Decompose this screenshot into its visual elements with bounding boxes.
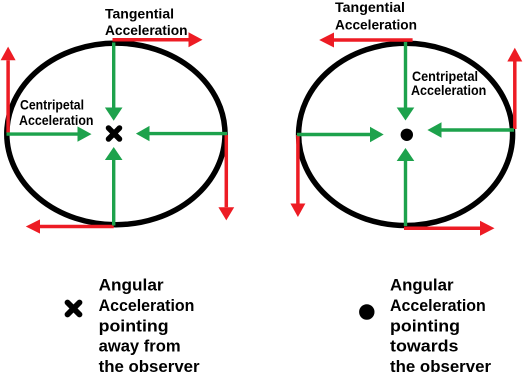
right tangential arrow bottom (red, right): [404, 221, 495, 236]
svg-text:Acceleration: Acceleration: [390, 296, 486, 315]
svg-text:Acceleration: Acceleration: [411, 83, 486, 98]
left centripetal arrow from top (green, down): [105, 43, 123, 121]
svg-text:Angular: Angular: [390, 276, 454, 295]
legend right dot symbol: [359, 304, 374, 319]
svg-text:Acceleration: Acceleration: [19, 113, 94, 128]
legend left text: angular acceleration away from observer: [99, 276, 200, 377]
right tangential arrow left (red, down): [290, 135, 305, 217]
label: left tangential acceleration: [105, 6, 188, 39]
legend left X symbol: [68, 303, 80, 315]
left centripetal arrow from left (green, right): [7, 126, 92, 141]
label: right centripetal acceleration: [411, 69, 486, 98]
svg-text:Centripetal: Centripetal: [412, 69, 478, 84]
svg-text:Centripetal: Centripetal: [20, 98, 84, 113]
right wheel ellipse: [299, 43, 513, 225]
right center dot (angular acceleration out of page): [401, 129, 413, 141]
svg-text:Angular: Angular: [99, 276, 164, 295]
left tangential arrow top (red, right): [113, 32, 203, 47]
right centripetal arrow from right (green, left): [427, 122, 514, 137]
left tangential arrow right (red, down): [218, 135, 234, 220]
left centripetal arrow from right (green, left): [136, 126, 227, 141]
left center X mark (angular acceleration into page): [109, 128, 120, 139]
right tangential arrow right (red, up): [507, 48, 522, 129]
left tangential arrow left (red, up): [1, 47, 16, 133]
right centripetal arrow from bottom (green, up): [397, 148, 415, 226]
right tangential arrow top (red, left): [319, 33, 412, 48]
svg-text:Acceleration: Acceleration: [99, 296, 195, 315]
svg-text:the observer: the observer: [390, 357, 491, 376]
legend right text: angular acceleration towards observer: [390, 276, 491, 377]
svg-text:pointing: pointing: [390, 316, 460, 335]
svg-text:towards: towards: [390, 337, 459, 356]
left tangential arrow bottom (red, left): [26, 219, 114, 233]
svg-text:pointing: pointing: [99, 316, 169, 335]
right centripetal arrow from left (green, right): [297, 127, 384, 142]
svg-text:Tangential: Tangential: [105, 6, 174, 22]
left centripetal arrow from bottom (green, up): [105, 147, 123, 226]
label: left centripetal acceleration: [19, 98, 94, 129]
svg-text:Tangential: Tangential: [335, 0, 405, 16]
svg-text:the observer: the observer: [99, 357, 200, 376]
left wheel ellipse: [7, 43, 225, 225]
svg-text:Acceleration: Acceleration: [335, 18, 417, 34]
label: right tangential acceleration: [335, 0, 417, 34]
svg-text:away from: away from: [99, 337, 181, 356]
right centripetal arrow from top (green, down): [397, 42, 415, 121]
svg-text:Acceleration: Acceleration: [105, 23, 188, 39]
